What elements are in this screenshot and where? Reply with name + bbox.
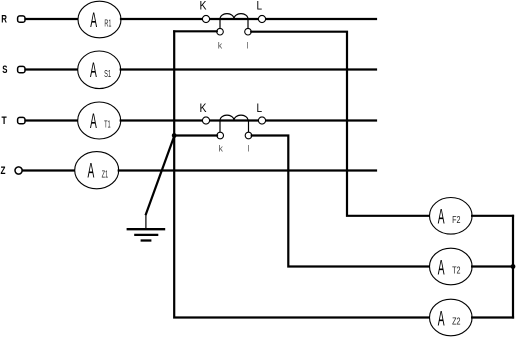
wire Z input — [23, 169, 76, 171]
ammeter R1 — [78, 1, 121, 38]
svg-text:R: R — [1, 14, 7, 26]
CT1 terminal L — [258, 15, 265, 22]
CT2 terminal l — [245, 132, 252, 139]
right bus wire — [512, 216, 514, 318]
ammeter Z1 — [75, 152, 119, 189]
svg-text:R1: R1 — [104, 19, 111, 30]
svg-text:A: A — [90, 59, 97, 82]
junction dot right bus T2 — [511, 264, 516, 269]
wire CT1 l to F2 — [251, 32, 429, 216]
terminal Z — [15, 167, 22, 174]
CT1 terminal K — [202, 15, 209, 22]
ammeter F2 — [430, 198, 473, 235]
wire CT2 l to T2 — [252, 136, 430, 267]
svg-text:l: l — [247, 41, 249, 52]
svg-text:S: S — [2, 64, 7, 76]
wire R line — [121, 18, 376, 20]
wire ground slant — [146, 136, 174, 214]
junction dot common-k2 — [172, 133, 177, 138]
CT1 terminal k — [217, 28, 224, 35]
ammeter T1 — [78, 102, 121, 139]
svg-text:k: k — [219, 143, 224, 154]
svg-text:T: T — [2, 115, 7, 127]
svg-text:L: L — [257, 0, 263, 13]
wire Z line — [119, 169, 376, 171]
ammeter T2 — [430, 248, 473, 285]
wire T input — [26, 119, 79, 121]
svg-text:A: A — [90, 110, 97, 133]
svg-text:A: A — [90, 9, 97, 32]
CT2 lead l — [248, 121, 250, 133]
CT1 lead k — [219, 19, 221, 28]
CT2 terminal K — [202, 117, 209, 124]
svg-text:A: A — [88, 160, 95, 183]
wire Z2 to right bus — [472, 316, 513, 318]
CT2 terminal L — [258, 117, 265, 124]
svg-text:T2: T2 — [452, 266, 461, 277]
ground stem — [145, 214, 147, 229]
CT1 winding — [220, 14, 248, 19]
wire T line — [121, 119, 376, 121]
terminal S — [18, 66, 25, 72]
wire F2 to right bus — [472, 215, 513, 217]
svg-text:S1: S1 — [104, 69, 111, 80]
wire T2 to right bus — [472, 265, 513, 267]
CT2 lead k — [219, 121, 221, 133]
svg-text:A: A — [438, 256, 445, 279]
ammeter S1 — [78, 51, 121, 89]
wire S input — [26, 68, 79, 70]
svg-text:L: L — [257, 101, 263, 115]
svg-text:A: A — [438, 206, 445, 229]
wire S line — [121, 68, 376, 70]
svg-text:k: k — [218, 41, 223, 52]
svg-text:K: K — [200, 101, 207, 115]
svg-text:T1: T1 — [104, 120, 111, 131]
svg-text:K: K — [200, 0, 207, 13]
wire CT1 k to common bus — [174, 30, 217, 32]
CT2 terminal k — [217, 132, 224, 139]
ground — [127, 229, 166, 240]
ammeter Z2 — [430, 299, 473, 336]
CT2 winding — [220, 115, 248, 120]
wire R input — [26, 18, 79, 20]
svg-text:A: A — [438, 307, 445, 330]
svg-text:l: l — [248, 143, 250, 154]
CT1 terminal l — [245, 28, 252, 35]
wire common bus down to Z2 — [174, 31, 430, 317]
svg-text:Z: Z — [1, 165, 6, 177]
terminal R — [18, 16, 25, 22]
svg-text:Z1: Z1 — [102, 169, 109, 180]
svg-text:F2: F2 — [452, 215, 461, 226]
CT1 lead l — [247, 19, 249, 28]
wire CT2 k to common bus — [174, 134, 217, 136]
terminal T — [18, 117, 25, 123]
svg-text:Z2: Z2 — [452, 317, 461, 328]
